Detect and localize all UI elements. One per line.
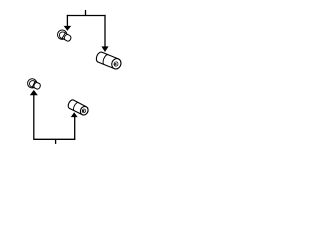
arrowhead to top-right cylinder xyxy=(101,46,108,52)
wire: bottom-right vertical riser xyxy=(74,117,76,140)
wire: bottom-left vertical riser xyxy=(33,95,35,140)
arrowhead to top-left roll xyxy=(64,26,72,31)
wire: top-left vertical drop xyxy=(66,15,68,26)
arrowhead to bottom-right cylinder xyxy=(71,112,78,117)
arrowhead to bottom-left roll xyxy=(30,90,38,95)
small roll (top-left component) xyxy=(58,30,72,42)
small roll (bottom-left component) xyxy=(28,79,42,90)
medium cylinder (bottom-right component) xyxy=(67,99,90,117)
wire: top horizontal bar xyxy=(67,15,106,17)
wire: top-right vertical drop xyxy=(104,15,106,47)
wire: top center tick xyxy=(85,10,87,16)
wire: bottom horizontal bar xyxy=(34,138,75,140)
large cylinder (top-right component) xyxy=(95,51,123,70)
wire: bottom center tick xyxy=(55,139,57,144)
